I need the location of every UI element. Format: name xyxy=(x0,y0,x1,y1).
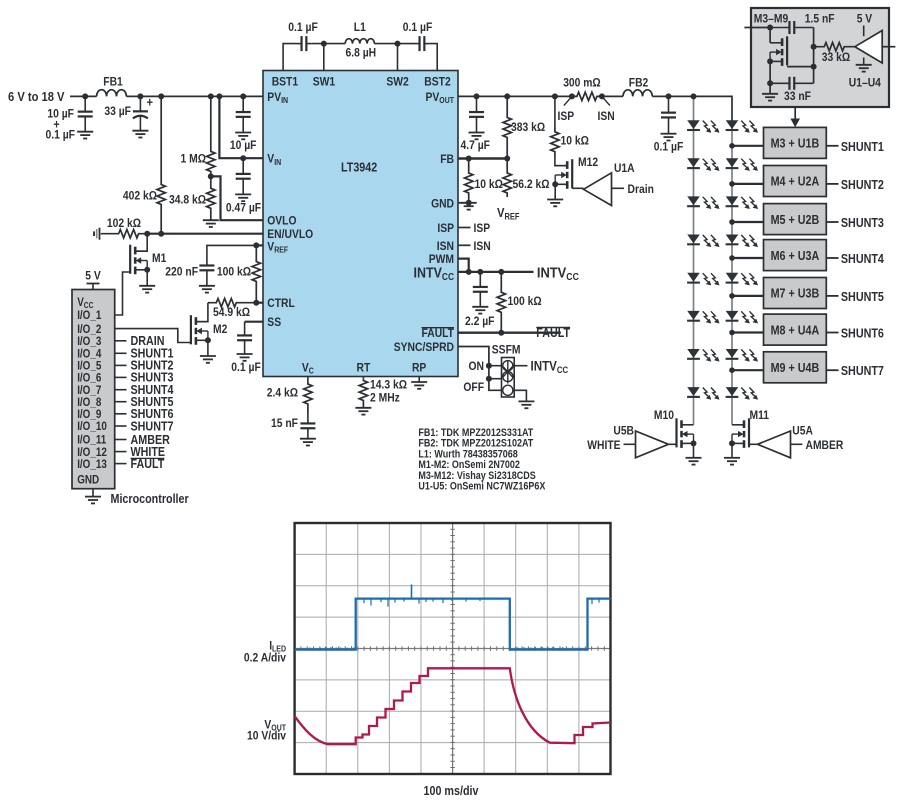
svg-text:33 µF: 33 µF xyxy=(104,104,131,118)
wire switch to INTVCC xyxy=(514,365,527,367)
capacitor C_VC 15nF xyxy=(300,413,315,439)
wire I/O_1 to M1 gate xyxy=(115,272,131,315)
svg-text:100 kΩ: 100 kΩ xyxy=(217,265,251,279)
ground for C_SS xyxy=(237,354,253,361)
svg-text:SS: SS xyxy=(267,315,281,329)
svg-text:10 kΩ: 10 kΩ xyxy=(561,134,590,148)
svg-text:10 kΩ: 10 kΩ xyxy=(475,177,504,191)
wire inset input lead xyxy=(744,27,770,29)
wire I/O_4 net stub xyxy=(115,352,127,354)
wire U5A out to M11 gate xyxy=(749,443,758,445)
svg-text:ISP: ISP xyxy=(437,221,454,235)
wire SW1 riser xyxy=(321,41,327,47)
scope red trace VOUT xyxy=(295,668,611,744)
svg-text:1 MΩ: 1 MΩ xyxy=(181,151,207,165)
op-amp U_shunt7 box M9 xyxy=(764,352,827,383)
svg-text:M3–M9: M3–M9 xyxy=(754,12,789,26)
ground for switch xyxy=(518,401,534,408)
diode D_R7 amber LED xyxy=(726,349,758,361)
svg-text:SHUNT4: SHUNT4 xyxy=(841,252,884,266)
op-amp U_shunt6 box M8 xyxy=(764,314,827,345)
svg-text:ISN: ISN xyxy=(437,239,454,253)
svg-text:SW2: SW2 xyxy=(386,75,409,89)
svg-text:CC: CC xyxy=(442,272,454,283)
svg-text:M8 + U4A: M8 + U4A xyxy=(771,323,820,337)
svg-text:0.47 µF: 0.47 µF xyxy=(226,201,261,215)
ground for RP xyxy=(411,382,427,389)
wire buffer gnd xyxy=(863,58,865,65)
svg-text:I/O_11: I/O_11 xyxy=(77,435,107,447)
op-amp U_shunt3 box M5 xyxy=(764,204,827,235)
svg-text:M7 + U3B: M7 + U3B xyxy=(771,287,820,301)
wire SYNC/SPRD to switch xyxy=(458,347,502,391)
diode D_L5 white LED xyxy=(687,273,719,285)
diode D_L8 white LED xyxy=(687,388,719,400)
wire MCU GND xyxy=(92,489,94,497)
wire inset source to ground xyxy=(769,61,771,93)
svg-text:I/O_9: I/O_9 xyxy=(77,409,101,421)
diode D_R4 amber LED xyxy=(726,235,758,247)
capacitor C_BST2 0.1uF xyxy=(415,36,430,51)
wire FAULT pin xyxy=(458,332,561,334)
svg-text:CC: CC xyxy=(566,272,579,283)
svg-text:100 ms/div: 100 ms/div xyxy=(424,784,479,798)
svg-text:34.8 kΩ: 34.8 kΩ xyxy=(169,193,206,207)
ground for M10 xyxy=(686,458,702,465)
capacitor C_220nF xyxy=(207,245,256,250)
wire M12 source to ground xyxy=(554,184,556,199)
svg-text:PV: PV xyxy=(267,90,281,104)
diode D_R8 amber LED xyxy=(726,388,758,400)
svg-text:I/O_7: I/O_7 xyxy=(77,385,101,397)
svg-text:ON: ON xyxy=(469,359,485,373)
svg-text:2 MHz: 2 MHz xyxy=(370,391,400,405)
resistor R_402k xyxy=(157,96,165,233)
svg-text:INTV: INTV xyxy=(531,359,557,374)
svg-text:SHUNT2: SHUNT2 xyxy=(841,178,884,192)
capacitor C_in2 33uF polarized xyxy=(137,93,143,99)
capacitor C_0.47uF xyxy=(240,155,246,161)
svg-text:2.2 µF: 2.2 µF xyxy=(465,314,495,328)
svg-text:ISP: ISP xyxy=(474,221,491,235)
op-amp U_shunt1 box M3 xyxy=(764,127,827,158)
ground stub left of 102k xyxy=(94,228,100,240)
wire ISN pin stub xyxy=(458,244,471,246)
svg-text:M6 + U3A: M6 + U3A xyxy=(771,249,820,263)
svg-text:I/O_3: I/O_3 xyxy=(77,336,101,348)
svg-text:0.2 A/div: 0.2 A/div xyxy=(244,651,286,665)
diode D_R1 amber LED xyxy=(726,121,758,133)
diode D_L3 white LED xyxy=(687,197,719,209)
svg-text:I/O_1: I/O_1 xyxy=(77,310,102,322)
svg-text:300 mΩ: 300 mΩ xyxy=(563,76,601,90)
svg-text:U5A: U5A xyxy=(792,424,813,438)
svg-text:AMBER: AMBER xyxy=(806,438,844,452)
svg-text:0.1 µF: 0.1 µF xyxy=(288,20,318,34)
svg-text:SSFM: SSFM xyxy=(492,343,521,357)
transistor M1 xyxy=(135,234,147,252)
wire PVOUT rail xyxy=(458,95,572,97)
wire input rail to PVIN xyxy=(126,95,263,97)
wire I/O_2 to M2 gate xyxy=(115,329,191,343)
svg-text:M10: M10 xyxy=(654,408,674,422)
op-amp U_shunt2 box M4 xyxy=(764,166,827,197)
svg-text:ISN: ISN xyxy=(474,239,491,253)
svg-text:6.8 µH: 6.8 µH xyxy=(346,46,377,60)
ground for MCU xyxy=(85,497,101,504)
svg-text:BST1: BST1 xyxy=(272,75,299,89)
svg-text:FB: FB xyxy=(440,152,454,166)
resistor R_56.2k xyxy=(503,159,511,198)
resistor R_1M xyxy=(208,93,214,99)
ground for C_220nF xyxy=(199,286,215,293)
ground for M1 xyxy=(139,286,155,293)
svg-text:U5B: U5B xyxy=(613,424,634,438)
wire 5V into buffer xyxy=(863,26,865,37)
svg-text:CC: CC xyxy=(84,301,94,310)
ground for C_10uF xyxy=(235,133,251,140)
svg-text:M2: M2 xyxy=(213,322,228,336)
ground for R_34.8k xyxy=(203,220,219,227)
wire rail down to 402k xyxy=(158,93,164,99)
wire shunt5 out xyxy=(826,295,838,297)
wire divider tap to OVLO xyxy=(211,176,263,220)
capacitor C_intv 2.2uF xyxy=(473,272,488,307)
svg-text:RT: RT xyxy=(357,361,371,375)
svg-text:33 kΩ: 33 kΩ xyxy=(822,50,851,64)
resistor R_54.9k xyxy=(208,299,256,307)
svg-text:54.9 kΩ: 54.9 kΩ xyxy=(213,305,250,319)
wire left LED string xyxy=(693,96,695,424)
wire right LED string xyxy=(731,121,733,425)
svg-text:REF: REF xyxy=(274,246,288,255)
wire shunt6 out xyxy=(826,332,838,334)
transistor M12 xyxy=(555,157,567,166)
svg-text:0.1 µF: 0.1 µF xyxy=(654,140,684,154)
wire BST1 cap to SW1 xyxy=(311,43,345,45)
svg-text:SHUNT6: SHUNT6 xyxy=(841,327,884,341)
resistor R_33k inset xyxy=(814,43,855,51)
scope border xyxy=(295,523,611,774)
ground for M2 xyxy=(200,356,216,363)
svg-text:REF: REF xyxy=(505,211,521,221)
wire shunt1 out xyxy=(826,145,838,147)
svg-text:I/O_5: I/O_5 xyxy=(77,361,102,373)
svg-text:V: V xyxy=(302,361,309,375)
svg-text:5 V: 5 V xyxy=(857,12,873,26)
op-amp U1A buffer xyxy=(572,187,583,189)
svg-text:SHUNT1: SHUNT1 xyxy=(841,140,884,154)
wire WHITE input xyxy=(624,443,636,445)
resistor R_34.8k xyxy=(208,173,214,179)
svg-text:15 nF: 15 nF xyxy=(271,416,298,430)
svg-text:LT3942: LT3942 xyxy=(341,161,377,175)
capacitor C_BST1 0.1uF xyxy=(297,36,312,51)
wire M2 source to ground xyxy=(207,340,209,356)
transistor M3-M9 inset xyxy=(769,28,771,43)
wire shunt tap 1 xyxy=(729,143,735,149)
ground for C_in2 xyxy=(132,131,148,138)
svg-text:RP: RP xyxy=(412,361,426,375)
svg-text:I/O_12: I/O_12 xyxy=(77,447,107,459)
svg-text:L1: L1 xyxy=(354,20,366,34)
svg-text:PV: PV xyxy=(426,90,440,104)
svg-text:0.1 µF: 0.1 µF xyxy=(231,360,260,374)
wire I/O_11 net stub xyxy=(115,439,127,441)
ground for R_RT xyxy=(355,408,371,415)
op-amp U_LT3942 main IC body xyxy=(263,71,458,377)
svg-text:M3 + U1B: M3 + U1B xyxy=(771,137,820,151)
wire I/O_5 net stub xyxy=(115,364,127,366)
capacitor C_33nF xyxy=(770,77,814,90)
svg-text:I/O_6: I/O_6 xyxy=(77,373,101,385)
wire PWM to INTVCC xyxy=(458,259,469,272)
svg-text:100 kΩ: 100 kΩ xyxy=(508,294,542,308)
diode D_L7 white LED xyxy=(687,349,719,361)
svg-text:IN: IN xyxy=(274,158,281,167)
svg-text:C: C xyxy=(309,367,314,376)
resistor R_RT 14.3k xyxy=(362,377,364,379)
svg-text:U1A: U1A xyxy=(614,161,635,175)
diode D_R5 amber LED xyxy=(726,273,758,285)
wire shunt tap 2 xyxy=(729,181,735,187)
wire BST1 riser xyxy=(283,44,296,71)
wire M1 source to ground xyxy=(146,270,148,286)
svg-text:102 kΩ: 102 kΩ xyxy=(107,216,141,230)
resistor R_383k xyxy=(504,93,510,99)
transistor M2 xyxy=(196,303,208,322)
svg-text:FB2: FB2 xyxy=(629,76,649,90)
ground for C_in1 xyxy=(77,132,93,139)
svg-text:0.1 µF: 0.1 µF xyxy=(403,20,433,34)
svg-text:5 V: 5 V xyxy=(85,269,101,283)
ground for C_intv xyxy=(472,307,488,314)
wire inset gate lead xyxy=(787,66,814,68)
wire rail to VIN pin xyxy=(216,93,222,99)
svg-text:CTRL: CTRL xyxy=(267,296,295,310)
wire shunt tap 7 xyxy=(729,367,735,373)
wire SW2 riser xyxy=(395,41,401,47)
scope blue trace ILED xyxy=(295,599,611,650)
svg-text:SHUNT7: SHUNT7 xyxy=(131,419,174,433)
resistor R_M12 10k xyxy=(552,93,558,99)
wire shunt7 out xyxy=(826,369,838,371)
svg-text:I/O_10: I/O_10 xyxy=(77,421,107,433)
svg-text:10 V/div: 10 V/div xyxy=(247,729,286,743)
ground for M12 xyxy=(547,200,563,207)
wire ISP leader xyxy=(564,96,572,105)
svg-text:U1–U4: U1–U4 xyxy=(849,76,881,90)
wire shunt3 out xyxy=(826,221,838,223)
svg-text:ISN: ISN xyxy=(598,109,615,123)
wire I/O_7 net stub xyxy=(115,389,127,391)
svg-text:383 kΩ: 383 kΩ xyxy=(511,120,545,134)
wire I/O_12 net stub xyxy=(115,451,127,453)
wire inset arrow to shunt boxes xyxy=(794,107,796,120)
wire I/O_3 net stub xyxy=(115,340,127,342)
svg-text:PWM: PWM xyxy=(429,252,454,266)
svg-text:33 nF: 33 nF xyxy=(784,89,811,103)
svg-text:56.2 kΩ: 56.2 kΩ xyxy=(513,177,550,191)
wire shunt2 out xyxy=(826,183,838,185)
wire inset gate node xyxy=(813,28,815,67)
svg-text:M9 + U4B: M9 + U4B xyxy=(771,361,820,375)
svg-text:I/O_4: I/O_4 xyxy=(77,349,102,361)
svg-text:SW1: SW1 xyxy=(313,75,336,89)
wire U1A input Drain xyxy=(612,187,625,189)
svg-text:M11: M11 xyxy=(750,408,770,422)
ground for C_0.47uF xyxy=(235,194,251,201)
svg-text:1.5 nF: 1.5 nF xyxy=(805,12,835,26)
ground for inset buffer xyxy=(856,65,872,72)
op-amp U_MCU microcontroller body xyxy=(72,290,115,489)
svg-text:I/O_8: I/O_8 xyxy=(77,397,102,409)
svg-text:Microcontroller: Microcontroller xyxy=(111,492,189,506)
wire input rail left xyxy=(70,95,97,97)
svg-text:V: V xyxy=(267,239,274,253)
wire FB pin xyxy=(458,157,507,159)
wire switch to ground xyxy=(514,390,526,401)
svg-text:M5 + U2B: M5 + U2B xyxy=(771,213,820,227)
wire shunt tap 6 xyxy=(729,330,735,336)
svg-text:402 kΩ: 402 kΩ xyxy=(123,189,157,203)
wire shunt tap 4 xyxy=(729,255,735,261)
svg-text:INTV: INTV xyxy=(537,265,566,282)
svg-text:0.1 µF: 0.1 µF xyxy=(46,128,76,142)
svg-text:SHUNT3: SHUNT3 xyxy=(841,216,884,230)
svg-text:SYNC/SPRD: SYNC/SPRD xyxy=(394,340,454,354)
op-amp U1-U4 buffer inset xyxy=(855,31,882,64)
wire GND pin xyxy=(458,202,469,204)
wire inset output xyxy=(882,46,895,48)
svg-text:GND: GND xyxy=(77,475,99,487)
wire shunt tap 5 xyxy=(729,293,735,299)
diode D_L1 white LED xyxy=(687,121,719,133)
wire U5B out to M10 gate xyxy=(669,443,677,445)
capacitor C_SS 0.1uF xyxy=(237,322,252,354)
svg-text:OUT: OUT xyxy=(439,96,454,105)
svg-text:M1: M1 xyxy=(152,251,167,265)
resistor R_FB 10k xyxy=(465,159,473,203)
wire I/O_13 net stub xyxy=(115,463,127,465)
svg-text:OVLO: OVLO xyxy=(267,214,296,228)
ground for C_VC xyxy=(300,439,316,446)
svg-text:6 V to 18 V: 6 V to 18 V xyxy=(8,89,65,104)
wire FB2 to LED strings xyxy=(652,96,732,120)
scope grid xyxy=(295,523,611,774)
ground for inset mosfet xyxy=(762,94,778,101)
svg-text:10 µF: 10 µF xyxy=(47,106,74,120)
diode D_L6 white LED xyxy=(687,311,719,323)
capacitor C_led 0.1uF xyxy=(666,93,672,99)
wire ISP pin stub xyxy=(458,227,471,229)
diode D_R3 amber LED xyxy=(726,197,758,209)
wire M10 source gnd xyxy=(691,440,697,446)
wire BST2 riser xyxy=(429,44,437,71)
svg-text:M12: M12 xyxy=(578,155,598,169)
svg-text:IN: IN xyxy=(281,96,288,105)
svg-text:V: V xyxy=(267,152,274,166)
wire shunt tap 3 xyxy=(729,219,735,225)
wire I/O_8 net stub xyxy=(115,401,127,403)
wire RP pin to ground xyxy=(418,377,420,383)
capacitor C_1.5nF xyxy=(770,21,814,34)
diode D_R2 amber LED xyxy=(726,159,758,171)
switch SSFM jumper block xyxy=(486,363,492,369)
svg-text:WHITE: WHITE xyxy=(587,438,620,452)
diode D_L2 white LED xyxy=(687,159,719,171)
op-amp U_shunt5 box M7 xyxy=(764,278,827,309)
resistor R_VC 2.4k xyxy=(307,377,309,383)
wire shunt4 out xyxy=(826,257,838,259)
svg-text:OFF: OFF xyxy=(463,380,484,394)
svg-text:SHUNT7: SHUNT7 xyxy=(841,364,884,378)
wire AMBER input xyxy=(791,443,803,445)
wire L1 to SW2 xyxy=(374,43,414,45)
svg-text:FB1: FB1 xyxy=(103,75,123,89)
svg-text:U1-U5: OnSemi NC7WZ16P6X: U1-U5: OnSemi NC7WZ16P6X xyxy=(418,481,545,493)
capacitor C_10uF VIN xyxy=(240,93,246,99)
diode D_R6 amber LED xyxy=(726,311,758,323)
svg-text:INTV: INTV xyxy=(414,265,443,281)
ground for C_out xyxy=(469,133,485,140)
svg-text:14.3 kΩ: 14.3 kΩ xyxy=(370,378,407,392)
scope plot background xyxy=(295,523,611,774)
wire M11 source gnd xyxy=(729,440,735,446)
wire INTVCC pin xyxy=(458,271,534,273)
svg-text:+: + xyxy=(147,95,154,110)
ground for C_led xyxy=(661,134,677,141)
capacitor C_out 4.7uF xyxy=(474,93,480,99)
wire VREF pin xyxy=(256,244,263,246)
svg-text:Drain: Drain xyxy=(628,182,654,196)
wire CTRL pin xyxy=(256,302,263,304)
resistor R_100k VREF-CTRL xyxy=(252,245,260,302)
svg-text:ISP: ISP xyxy=(558,109,575,123)
svg-text:I/O_2: I/O_2 xyxy=(77,324,101,336)
wire sense to FB2 xyxy=(602,95,623,97)
op-amp inset detail box xyxy=(751,8,889,107)
wire I/O_6 net stub xyxy=(115,376,127,378)
wire SS pin xyxy=(245,321,263,323)
wire EN/UVLO xyxy=(147,233,263,235)
svg-text:I/O_13: I/O_13 xyxy=(77,459,107,471)
ground for GND pin xyxy=(461,203,477,210)
svg-text:GND: GND xyxy=(431,196,454,210)
wire I/O_10 net stub xyxy=(115,425,127,427)
svg-text:M4 + U2A: M4 + U2A xyxy=(771,175,820,189)
wire ISN leader xyxy=(602,96,610,105)
svg-text:2.4 kΩ: 2.4 kΩ xyxy=(267,386,299,400)
svg-text:CC: CC xyxy=(557,365,569,375)
capacitor C_in1 10uF + 0.1uF xyxy=(82,93,88,99)
svg-text:BST2: BST2 xyxy=(424,75,451,89)
node FAULT overline MCU xyxy=(131,457,165,459)
wire I/O_9 net stub xyxy=(115,413,127,415)
diode D_L4 white LED xyxy=(687,235,719,247)
ground for M11 xyxy=(724,458,740,465)
svg-text:220 nF: 220 nF xyxy=(165,265,198,279)
svg-text:SHUNT5: SHUNT5 xyxy=(841,290,884,304)
resistor R_fault 100k xyxy=(497,272,505,333)
op-amp U_shunt4 box M6 xyxy=(764,240,827,271)
